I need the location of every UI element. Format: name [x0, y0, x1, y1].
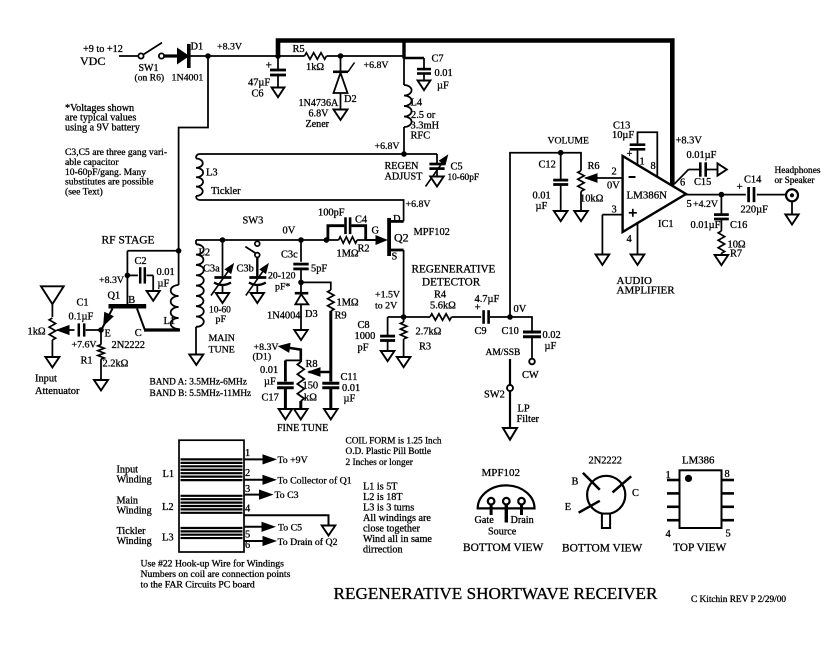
svg-text:+6.8V: +6.8V — [406, 199, 432, 210]
svg-text:5.6kΩ: 5.6kΩ — [430, 301, 456, 312]
junction below C3c — [298, 280, 304, 286]
winding turns note — [363, 482, 432, 556]
svg-text:+: + — [627, 149, 633, 160]
C10 label — [502, 326, 561, 352]
variable capacitor C3a — [211, 240, 233, 296]
svg-text:BAND B: 5.5MHz-11MHz: BAND B: 5.5MHz-11MHz — [150, 389, 252, 399]
svg-text:1000: 1000 — [355, 331, 376, 342]
svg-text:µF: µF — [437, 81, 449, 92]
svg-text:1: 1 — [666, 470, 671, 481]
C3c label — [281, 250, 298, 261]
ground below attenuator — [45, 357, 59, 367]
svg-text:to the FAR Circuits PC board: to the FAR Circuits PC board — [141, 580, 255, 591]
coil form note — [346, 437, 442, 468]
svg-text:C3b: C3b — [237, 264, 254, 275]
2N2222 package labels — [562, 456, 643, 555]
svg-text:Attenuator: Attenuator — [35, 386, 80, 397]
capacitor C16 — [714, 195, 729, 231]
svg-text:G: G — [372, 226, 380, 237]
net label +6.8V at drain — [406, 199, 432, 210]
svg-text:0.1µF: 0.1µF — [69, 312, 94, 323]
D2 value — [299, 98, 340, 130]
LP Filter label — [517, 404, 540, 426]
svg-text:Gate: Gate — [475, 515, 495, 526]
junction at detector output — [507, 314, 513, 320]
C1 label — [69, 298, 94, 323]
svg-text:To Collector of Q1: To Collector of Q1 — [278, 475, 352, 486]
ground below C11 — [324, 409, 338, 419]
SW1 label — [135, 63, 165, 84]
wire volume feed — [510, 153, 561, 317]
note voltages — [65, 103, 141, 133]
svg-text:R3: R3 — [419, 342, 431, 353]
inductor L4 — [404, 59, 412, 155]
svg-text:C16: C16 — [730, 220, 747, 231]
C14 label — [741, 175, 769, 216]
D1 label — [191, 42, 204, 53]
tap 4 to ground — [244, 504, 329, 526]
IC1 label — [627, 190, 674, 231]
svg-text:2.7kΩ: 2.7kΩ — [416, 327, 442, 338]
junction at output node — [719, 192, 725, 198]
C12 label — [533, 160, 556, 213]
svg-text:E: E — [105, 329, 111, 340]
svg-text:R5: R5 — [293, 44, 305, 55]
svg-text:0.01: 0.01 — [157, 267, 175, 278]
L4 label — [411, 98, 440, 142]
D1 value — [172, 73, 204, 84]
svg-text:L2: L2 — [162, 502, 174, 513]
RF STAGE label — [102, 235, 155, 247]
wire to +8.3V via D1 — [279, 343, 301, 362]
svg-text:(see Text): (see Text) — [65, 187, 103, 198]
svg-text:pF*: pF* — [275, 282, 290, 293]
svg-text:1N4001: 1N4001 — [172, 73, 204, 84]
svg-text:5: 5 — [245, 530, 250, 541]
R7 label — [728, 240, 746, 260]
svg-text:C11: C11 — [341, 372, 358, 383]
switch SW3 — [245, 240, 259, 257]
svg-text:MPF102: MPF102 — [482, 467, 521, 479]
wire supply drop to RF stage — [179, 56, 208, 251]
svg-text:(D1): (D1) — [253, 352, 272, 363]
capacitor C15 — [675, 162, 718, 184]
svg-text:0.01: 0.01 — [342, 383, 360, 394]
resistor R5 — [305, 53, 327, 60]
svg-text:L1 is 5T: L1 is 5T — [363, 482, 398, 493]
svg-text:RF STAGE: RF STAGE — [102, 235, 155, 247]
svg-text:47µF: 47µF — [248, 78, 270, 89]
Headphones label — [775, 166, 821, 186]
svg-text:2.2kΩ: 2.2kΩ — [103, 359, 129, 370]
wire source node to C8 — [388, 316, 404, 318]
headphone jack — [786, 189, 798, 214]
svg-text:0.01: 0.01 — [533, 191, 551, 202]
svg-text:Input: Input — [35, 374, 57, 385]
svg-text:TOP VIEW: TOP VIEW — [673, 542, 727, 554]
C4 label — [318, 208, 368, 226]
svg-text:To C3: To C3 — [275, 490, 299, 501]
D3 label — [305, 309, 318, 320]
svg-text:+: + — [266, 60, 273, 72]
wire to R6 top — [561, 153, 581, 171]
tap 2 to collector of Q1 — [244, 468, 352, 486]
svg-text:AMPLIFIER: AMPLIFIER — [617, 285, 676, 297]
svg-text:SW2: SW2 — [484, 390, 505, 401]
ground below C3a — [216, 293, 229, 303]
svg-text:C1: C1 — [77, 298, 89, 309]
capacitor C7 — [417, 58, 431, 81]
svg-text:+7.6V: +7.6V — [72, 340, 98, 351]
svg-text:LM386N: LM386N — [627, 190, 668, 202]
L3 label — [206, 168, 241, 198]
ground below R3 — [397, 357, 411, 367]
svg-text:C: C — [135, 328, 142, 339]
capacitor C8 — [380, 317, 395, 351]
R2 label — [337, 244, 370, 260]
wire L4 supply drop — [404, 41, 424, 59]
transistor Q2 MPF102 — [387, 218, 403, 256]
ground below C5 — [430, 177, 443, 187]
svg-text:Zener: Zener — [306, 119, 330, 130]
R1 label — [81, 356, 129, 370]
op-amp IC1 LM386N — [602, 150, 686, 255]
C16 label — [691, 220, 748, 231]
Input Winding label — [117, 465, 175, 486]
op-amp pin labels — [612, 157, 692, 246]
REGEN ADJUST label — [385, 161, 424, 183]
junction node E — [98, 327, 111, 339]
ground below D3 — [294, 330, 307, 340]
svg-text:6.8V: 6.8V — [309, 109, 330, 120]
net label 0V — [283, 226, 296, 237]
C3c value — [311, 264, 327, 275]
svg-text:1kΩ: 1kΩ — [28, 327, 46, 338]
svg-text:TUNE: TUNE — [209, 345, 235, 356]
ground below C7 — [418, 81, 431, 91]
antenna input — [41, 286, 64, 317]
svg-text:C12: C12 — [539, 160, 556, 171]
svg-text:0V: 0V — [514, 304, 527, 315]
svg-text:20-120: 20-120 — [268, 271, 296, 282]
svg-text:8: 8 — [651, 161, 656, 172]
svg-text:To C5: To C5 — [278, 523, 302, 534]
Q1 label — [108, 291, 145, 352]
svg-text:close together: close together — [363, 524, 420, 535]
svg-text:150: 150 — [303, 381, 319, 392]
svg-text:DETECTOR: DETECTOR — [422, 277, 481, 289]
ground below pin 4 — [631, 255, 645, 265]
svg-text:4: 4 — [627, 234, 633, 245]
svg-text:5pF: 5pF — [311, 264, 327, 275]
ground below C8 — [381, 351, 395, 361]
svg-text:ADJUST: ADJUST — [385, 171, 424, 182]
svg-text:10-60pF: 10-60pF — [448, 173, 480, 183]
svg-text:C6: C6 — [252, 89, 264, 100]
ground below C6 — [272, 88, 285, 98]
winding L1 bars — [181, 459, 243, 480]
R3 label — [416, 327, 442, 353]
svg-text:4: 4 — [245, 504, 251, 515]
svg-text:L1: L1 — [164, 316, 176, 327]
ground below C3b — [251, 293, 264, 303]
svg-text:3: 3 — [245, 484, 250, 495]
svg-text:AM/SSB: AM/SSB — [486, 348, 521, 358]
ground at tap 4 — [322, 526, 336, 536]
svg-text:2: 2 — [612, 167, 617, 178]
svg-text:+6.8V: +6.8V — [364, 60, 390, 71]
svg-text:C5: C5 — [451, 162, 463, 173]
svg-text:R4: R4 — [434, 290, 447, 301]
svg-text:BOTTOM VIEW: BOTTOM VIEW — [463, 542, 544, 554]
resistor R9 — [328, 290, 334, 311]
C6 label — [248, 78, 270, 100]
FINE TUNE label — [277, 423, 328, 434]
svg-text:µF: µF — [536, 201, 548, 212]
svg-text:C17: C17 — [262, 393, 279, 404]
BAND table — [150, 378, 252, 400]
ground below L2 — [189, 355, 203, 365]
R5 label — [293, 44, 325, 73]
svg-text:D1: D1 — [191, 42, 204, 53]
LM386 package top view — [667, 470, 734, 528]
svg-text:REGENERATIVE SHORTWAVE RECEIVE: REGENERATIVE SHORTWAVE RECEIVER — [334, 584, 659, 603]
ground below R7 — [715, 255, 729, 265]
svg-text:R2: R2 — [358, 244, 370, 255]
svg-text:220µF: 220µF — [741, 205, 769, 216]
wire tickler top +6.8V — [196, 154, 404, 159]
junction at L1 top — [176, 248, 182, 254]
net label +6.8V at L4 — [375, 141, 401, 152]
svg-text:SW3: SW3 — [243, 216, 264, 227]
svg-text:C14: C14 — [744, 175, 762, 186]
svg-text:Winding: Winding — [117, 536, 152, 547]
svg-text:To +9V: To +9V — [278, 455, 308, 466]
svg-text:1MΩ: 1MΩ — [337, 249, 359, 260]
svg-text:2N2222: 2N2222 — [112, 340, 145, 351]
svg-text:0.01: 0.01 — [260, 365, 278, 376]
C2 label — [135, 256, 175, 290]
svg-text:0.02: 0.02 — [543, 330, 561, 341]
wire tickler bottom to Q2 drain — [196, 196, 404, 221]
inductor L1 — [171, 251, 179, 330]
ground below pin 3 — [596, 255, 610, 265]
svg-text:C2: C2 — [135, 256, 147, 267]
svg-text:+8.3V: +8.3V — [676, 136, 703, 147]
credit — [691, 595, 786, 605]
svg-text:B: B — [128, 295, 135, 306]
capacitor C2 — [127, 267, 153, 291]
svg-text:0.01µF: 0.01µF — [691, 220, 721, 231]
net label +8.3V at pin 6 — [676, 136, 703, 147]
svg-text:C9: C9 — [475, 326, 487, 337]
C17 label — [260, 365, 279, 404]
svg-text:B: B — [572, 477, 579, 488]
wire pin5 output — [686, 194, 786, 196]
coil form outline — [179, 440, 244, 552]
svg-text:Numbers on coil are connection: Numbers on coil are connection points — [141, 569, 291, 580]
svg-text:Winding: Winding — [117, 506, 152, 517]
svg-text:Source: Source — [488, 527, 517, 538]
svg-text:dirrection: dirrection — [363, 545, 403, 556]
svg-text:MAIN: MAIN — [209, 333, 235, 344]
svg-text:L2 is 18T: L2 is 18T — [363, 492, 403, 503]
tap 3 to C3 — [244, 484, 299, 501]
ground below C2 — [147, 291, 160, 301]
svg-text:0V: 0V — [283, 226, 296, 237]
svg-text:2: 2 — [245, 468, 250, 479]
svg-text:C3a: C3a — [203, 264, 220, 275]
C15 label — [687, 150, 717, 188]
junction at D1 output — [205, 53, 211, 59]
capacitor C4 loop — [328, 217, 366, 240]
svg-text:6: 6 — [245, 540, 250, 551]
svg-text:+8.3V: +8.3V — [99, 275, 125, 286]
svg-text:R6: R6 — [588, 161, 600, 172]
svg-text:5: 5 — [687, 199, 692, 210]
svg-text:1kΩ: 1kΩ — [306, 62, 324, 73]
svg-text:VDC: VDC — [80, 54, 105, 68]
svg-text:D: D — [393, 214, 401, 225]
net label +9 to +12 VDC — [80, 44, 123, 68]
L1 label — [164, 316, 176, 327]
C8 label — [355, 320, 376, 354]
svg-text:R7: R7 — [730, 249, 742, 260]
svg-text:or Speaker: or Speaker — [775, 176, 816, 186]
svg-text:R1: R1 — [81, 356, 93, 367]
svg-text:C8: C8 — [358, 320, 370, 331]
junction at C12 — [558, 150, 564, 156]
output arrow to headphone amp — [718, 163, 727, 175]
svg-text:IC1: IC1 — [658, 219, 674, 230]
switch SW2 — [507, 359, 513, 428]
svg-text:D2: D2 — [344, 94, 357, 105]
svg-text:RFC: RFC — [411, 130, 431, 141]
svg-text:µF: µF — [264, 377, 276, 388]
potentiometer 1k input attenuator — [49, 318, 74, 357]
wire R9 to C11 — [329, 311, 332, 382]
svg-text:O.D. Plastic Pill Bottle: O.D. Plastic Pill Bottle — [346, 447, 431, 457]
svg-text:2N2222: 2N2222 — [589, 456, 622, 467]
svg-text:+8.3V: +8.3V — [217, 42, 243, 53]
svg-text:3: 3 — [612, 205, 617, 216]
svg-text:L3: L3 — [206, 168, 218, 179]
wire RF stage supply — [127, 250, 178, 252]
ground below R1 — [94, 380, 108, 390]
R9 label — [335, 298, 359, 322]
wire gate of Q2 — [366, 236, 387, 244]
svg-text:(on R6): (on R6) — [135, 73, 165, 84]
Input Attenuator label — [35, 374, 80, 398]
note capacitors — [65, 147, 167, 198]
potentiometer R8 — [297, 362, 330, 409]
svg-text:BAND A: 3.5MHz-6MHz: BAND A: 3.5MHz-6MHz — [150, 378, 247, 388]
wire +8.3V rail — [189, 55, 404, 57]
L2 label — [199, 248, 211, 259]
svg-text:+6.8V: +6.8V — [375, 141, 401, 152]
D3 value — [267, 311, 301, 322]
wire C3c to R9 — [301, 282, 331, 290]
C9 label — [475, 294, 500, 337]
C3a value — [209, 306, 231, 326]
svg-text:L1: L1 — [163, 469, 175, 480]
tap 5 to C5 — [244, 522, 302, 540]
svg-text:R9: R9 — [335, 311, 347, 322]
C11 label — [341, 372, 361, 405]
svg-text:C4: C4 — [355, 215, 368, 226]
G label — [372, 226, 380, 237]
ground below C12 — [554, 211, 568, 221]
capacitor C6 — [266, 56, 287, 88]
wire from VDC — [119, 55, 139, 57]
svg-text:Q1: Q1 — [108, 291, 121, 302]
svg-text:BOTTOM VIEW: BOTTOM VIEW — [562, 543, 643, 555]
svg-text:µF: µF — [344, 394, 356, 405]
svg-text:Wind all in same: Wind all in same — [363, 534, 432, 545]
Main Winding label — [117, 496, 174, 517]
transistor Q1 2N2222 — [102, 251, 181, 330]
MPF102 package bottom view — [478, 485, 535, 522]
wire tuning bus 0V — [196, 239, 366, 241]
variable capacitor C5 — [426, 154, 448, 187]
svg-text:Use #22 Hook-up Wire for Windi: Use #22 Hook-up Wire for Windings — [141, 559, 285, 570]
svg-text:0V: 0V — [607, 181, 620, 192]
attenuator value 1k — [28, 327, 46, 338]
svg-text:0.01: 0.01 — [435, 68, 453, 79]
capacitor C17 — [277, 360, 301, 409]
junction at C3a — [220, 237, 226, 243]
svg-text:Q2: Q2 — [394, 231, 409, 245]
wire +6.8V to C5 — [404, 153, 437, 155]
tap 6 to drain of Q2 — [244, 537, 338, 551]
svg-text:LM386: LM386 — [682, 454, 715, 466]
Tickler Winding label — [117, 526, 174, 547]
junction at C4 — [324, 237, 330, 243]
ground below R6 — [574, 211, 588, 221]
coil hookup note — [141, 559, 291, 591]
title — [334, 584, 659, 603]
thick supply rail to audio amplifier — [278, 41, 672, 186]
svg-text:µF: µF — [545, 341, 557, 352]
junction at C6 — [275, 53, 281, 59]
MAIN TUNE label — [209, 333, 235, 356]
ground below C17 — [279, 409, 293, 419]
capacitor C13 — [627, 132, 658, 177]
svg-text:1: 1 — [245, 448, 250, 459]
C7 label — [432, 54, 453, 92]
C13 label — [612, 121, 634, 142]
svg-text:1MΩ: 1MΩ — [337, 298, 359, 309]
svg-text:10kΩ: 10kΩ — [580, 194, 604, 205]
svg-text:+: + — [737, 181, 743, 193]
svg-text:REGENERATIVE: REGENERATIVE — [412, 264, 496, 276]
svg-text:+1.5V: +1.5V — [375, 290, 401, 301]
arrow to LP filter — [503, 428, 517, 440]
switch SW1 — [138, 43, 164, 59]
resistor R3 — [400, 317, 406, 357]
svg-text:µF: µF — [158, 279, 170, 290]
net label +7.6V — [72, 340, 98, 351]
svg-text:5: 5 — [726, 528, 731, 539]
svg-text:+4.2V: +4.2V — [693, 199, 719, 210]
resistor R4 — [404, 314, 482, 320]
svg-text:R8: R8 — [306, 359, 318, 370]
net label +1.5V to 2V — [375, 290, 401, 312]
diode D3 — [295, 282, 309, 330]
capacitor C9 — [475, 302, 511, 324]
svg-text:All windings are: All windings are — [363, 513, 431, 524]
svg-text:S: S — [392, 252, 398, 263]
